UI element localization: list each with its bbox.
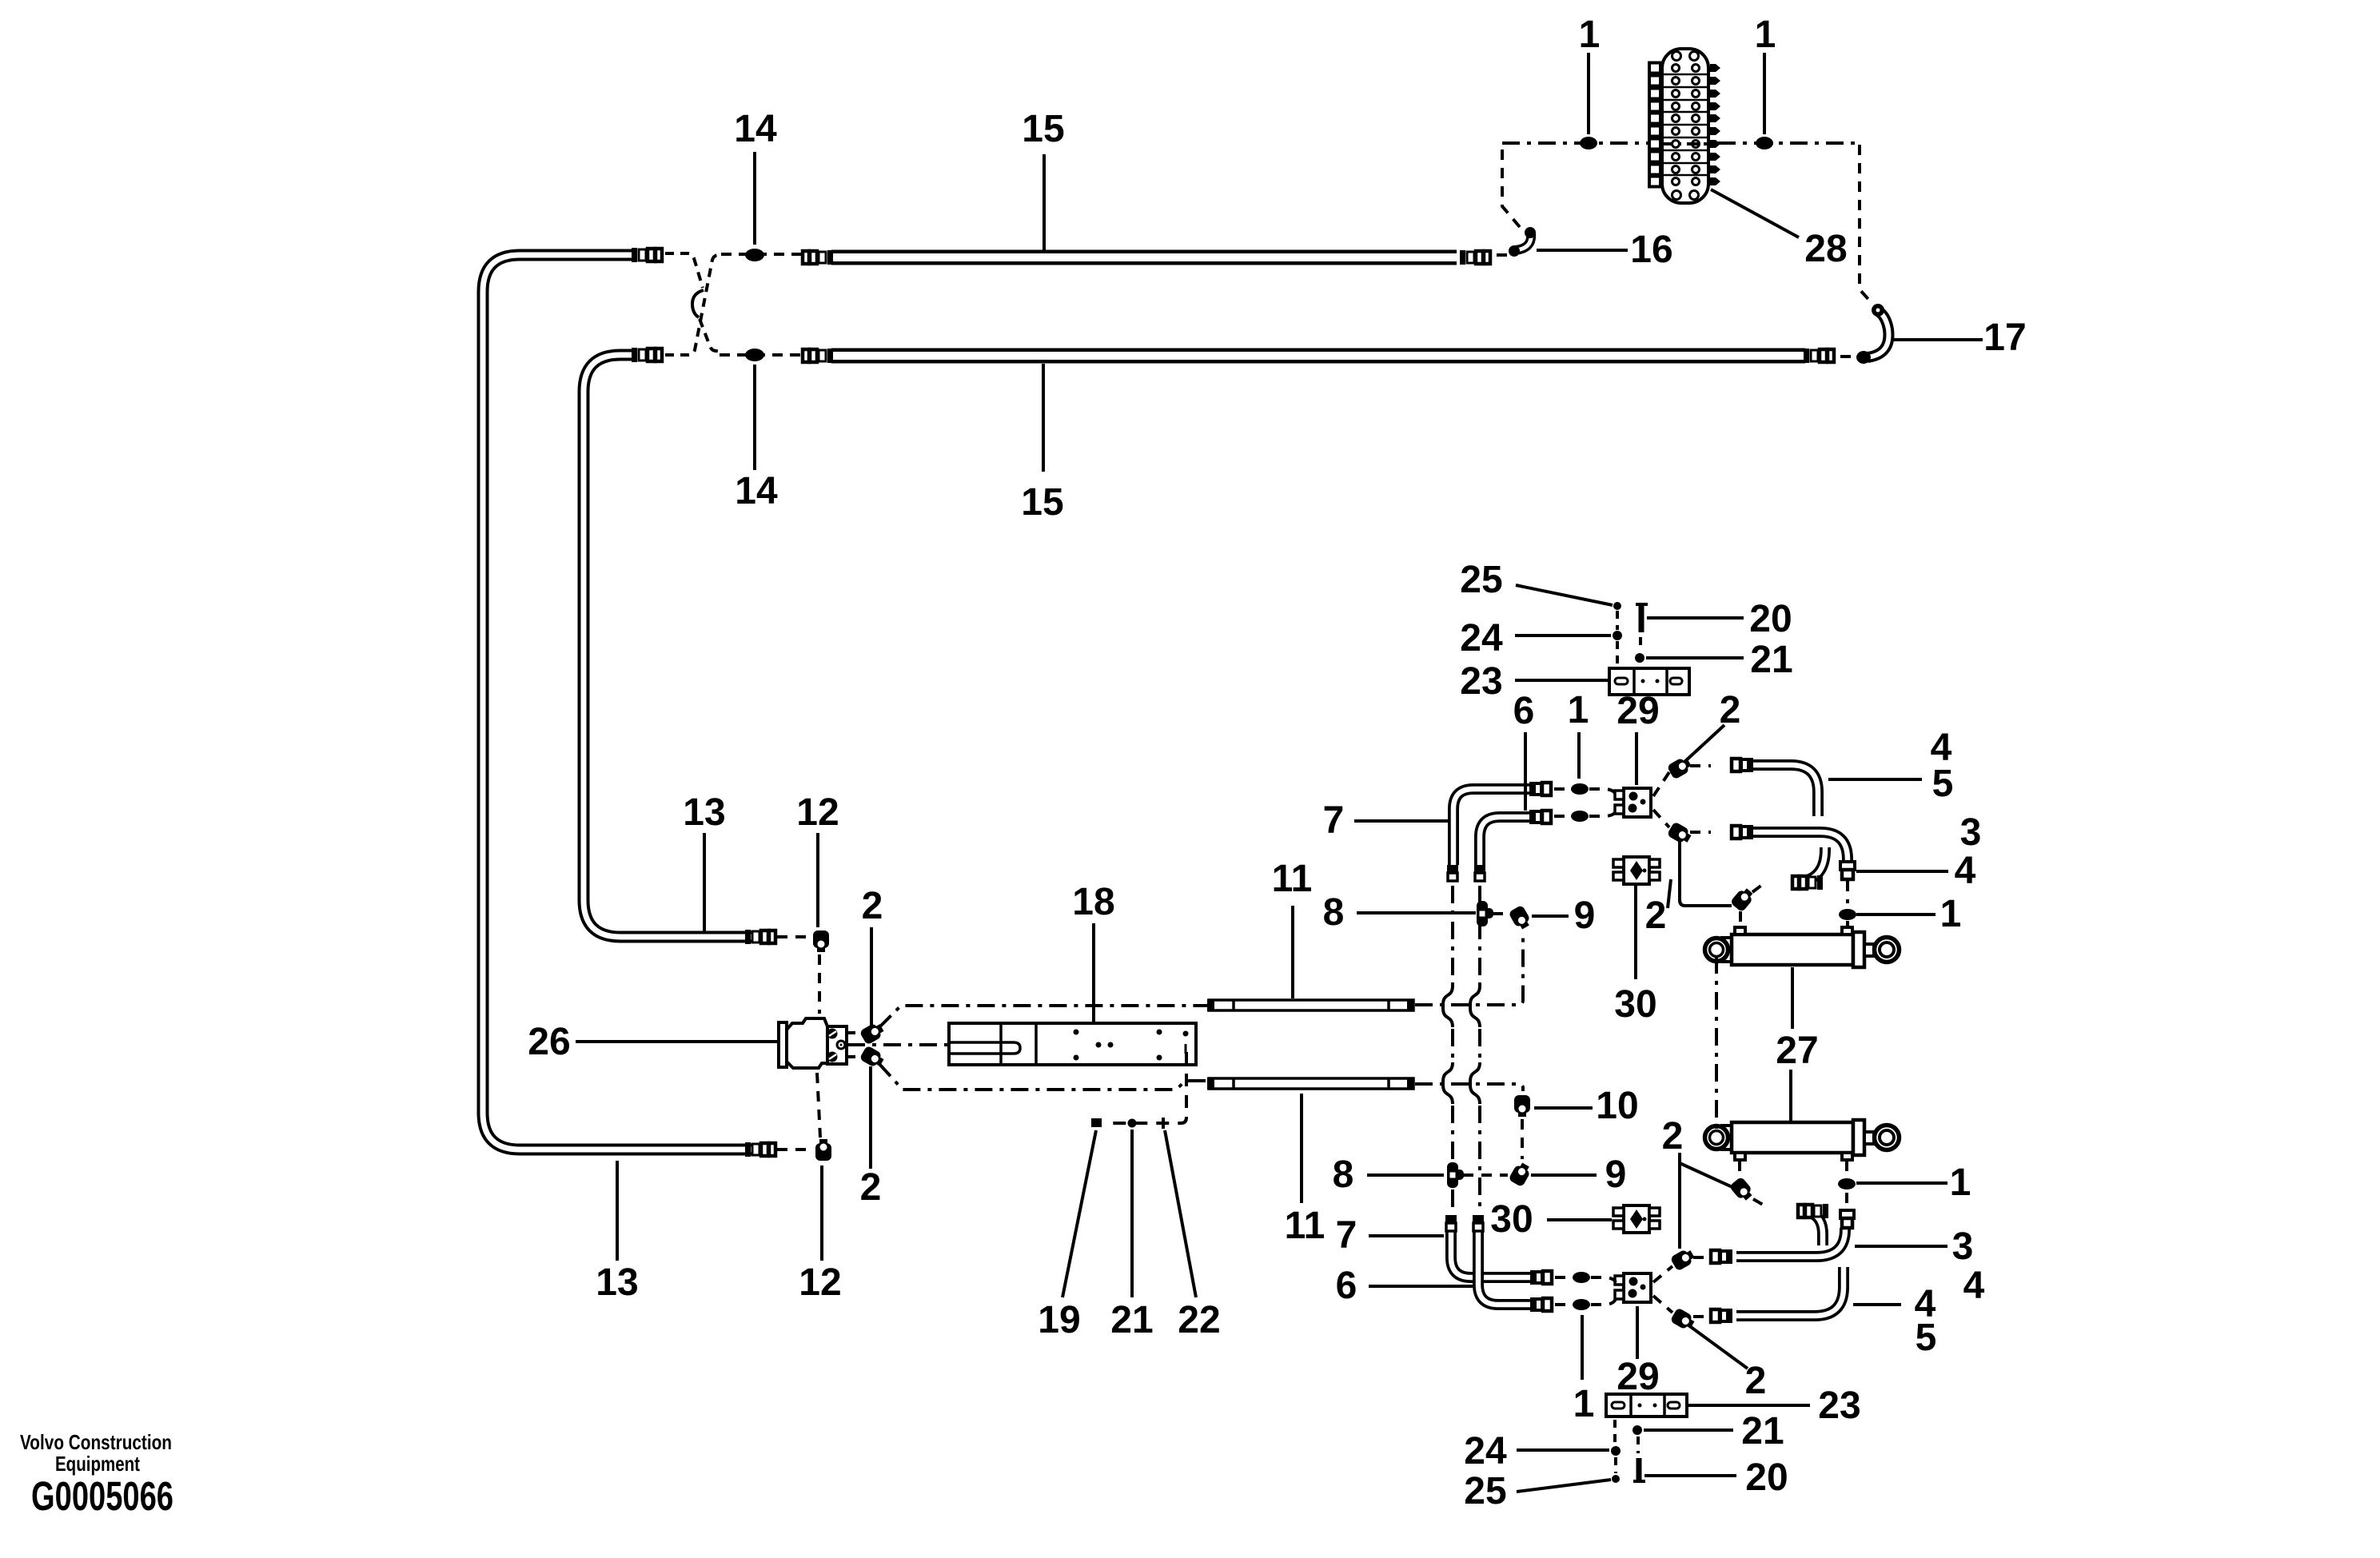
- leader 13 top: [703, 833, 706, 931]
- elbow fitting 9 upper: [1508, 905, 1533, 931]
- svg-text:8: 8: [1333, 1154, 1354, 1196]
- svg-text:24: 24: [1464, 1430, 1507, 1472]
- fitting hose 13 upper right end: [632, 248, 662, 262]
- leader 16: [1537, 249, 1628, 252]
- wire dash valve29l to elbow up: [1653, 1266, 1672, 1282]
- valve block 29 upper: [1615, 788, 1651, 817]
- svg-text:23: 23: [1460, 660, 1502, 703]
- connector 1 at valve29l top: [1573, 1272, 1590, 1283]
- svg-text:12: 12: [796, 791, 839, 834]
- elbow 2 at valve29l upper: [1670, 1247, 1696, 1272]
- svg-text:2: 2: [860, 1166, 882, 1209]
- hose 6 upper: [1480, 817, 1541, 865]
- svg-text:18: 18: [1072, 881, 1114, 923]
- wire dash pin20 to washer21: [1639, 637, 1642, 651]
- wire dash-dot elbow2u to hose4: [1690, 764, 1711, 767]
- svg-text:3: 3: [1960, 811, 1982, 854]
- hose 3 upper right: [1732, 832, 1848, 865]
- wire dash-dot drop line right c: [1478, 1106, 1481, 1213]
- leader 8 upper: [1357, 911, 1476, 914]
- svg-text:1: 1: [1568, 689, 1589, 731]
- wire dash swivel port lower to elbow: [848, 1055, 861, 1058]
- svg-text:5: 5: [1916, 1317, 1937, 1359]
- wire crossing hose swap line A: [665, 253, 703, 288]
- wire dash-dot elbow16 up to rail: [1502, 141, 1520, 227]
- elbow 2 at cylinder 27 upper: [1730, 886, 1756, 913]
- wire dash elbow2 to stub lower: [1753, 1199, 1768, 1208]
- svg-text:21: 21: [1750, 639, 1792, 681]
- svg-text:16: 16: [1630, 229, 1672, 271]
- leader 14 upper: [753, 152, 756, 245]
- pin 20 lower serif: [1633, 1480, 1645, 1483]
- wire dash tee8u to elbow9u: [1493, 912, 1509, 915]
- leader 9 upper: [1532, 914, 1569, 918]
- hose 3 lower right: [1736, 1228, 1845, 1257]
- wire dash-dot drop line left d: [1451, 1189, 1454, 1213]
- swivel joint 26: [779, 1018, 847, 1068]
- fitting hose 13 bottom right end: [745, 1142, 775, 1157]
- leader 1 top-left: [1587, 53, 1590, 134]
- wire dash valve29l to elbow down: [1653, 1296, 1672, 1313]
- leader 28: [1711, 189, 1799, 237]
- end caps elbow 17: [1856, 351, 1871, 364]
- pin 20 upper serif: [1636, 603, 1648, 606]
- wire crossing hook: [692, 290, 704, 317]
- connector 1 right cluster: [1839, 909, 1856, 920]
- tube 11 upper: [1207, 999, 1414, 1011]
- svg-text:20: 20: [1749, 598, 1792, 640]
- elbow 2 swivel lower: [859, 1045, 886, 1070]
- hose 15 lower long: [831, 349, 1805, 364]
- svg-text:15: 15: [1022, 108, 1064, 150]
- elbow 2 swivel upper: [859, 1021, 886, 1046]
- svg-text:25: 25: [1464, 1470, 1506, 1512]
- leader 1 top-right: [1763, 53, 1766, 134]
- leader 23 upper: [1515, 679, 1608, 682]
- wire dash bullet to hose3 fitting: [1845, 1193, 1848, 1207]
- washer 24 upper: [1613, 631, 1622, 640]
- leader 1 lower right: [1856, 1181, 1947, 1185]
- svg-text:3: 3: [1952, 1225, 1974, 1268]
- wire dash-dot drop line left c: [1451, 1106, 1454, 1161]
- wire dash hose15a to elbow 16: [1497, 253, 1508, 257]
- wire elbow2 to cylinder port: [1680, 839, 1732, 906]
- wire dash-dot drop line right b: [1478, 1029, 1481, 1062]
- wire dash plate to washer 24: [1613, 1420, 1617, 1445]
- leader 27 up: [1791, 967, 1794, 1029]
- wire hop of drop line left at upper centerline: [1443, 986, 1453, 1027]
- svg-text:25: 25: [1460, 559, 1502, 601]
- svg-text:2: 2: [1645, 895, 1667, 937]
- leader 19: [1062, 1130, 1096, 1297]
- plug 25 upper: [1613, 602, 1621, 610]
- wire dash-dot top rail: [1502, 141, 1860, 145]
- svg-text:7: 7: [1323, 799, 1345, 842]
- leader 30 upper: [1634, 886, 1637, 979]
- wire dash-dot drop line left a: [1451, 886, 1454, 986]
- valve block 29 lower: [1615, 1273, 1651, 1302]
- svg-text:9: 9: [1574, 895, 1596, 937]
- leader 5: [1828, 778, 1922, 781]
- leader 2 mid right: [1668, 879, 1671, 908]
- leader 25 lower: [1517, 1480, 1611, 1492]
- leader 6 upper: [1524, 732, 1527, 811]
- leader 11 lower: [1300, 1094, 1303, 1203]
- leader 21 lower: [1644, 1428, 1733, 1432]
- svg-text:21: 21: [1741, 1410, 1784, 1452]
- tee fitting 8 upper: [1477, 901, 1493, 926]
- fitting hose 13 lower right end: [632, 348, 662, 362]
- fitting hose 15 lower right end: [1804, 349, 1834, 363]
- wire dash valve29u to elbow2 down: [1653, 810, 1669, 827]
- svg-text:4: 4: [1963, 1265, 1985, 1307]
- leader 24 lower: [1517, 1448, 1609, 1452]
- wire dash hose7u to bullet: [1554, 787, 1567, 791]
- leader 9 lower: [1531, 1173, 1597, 1177]
- elbow fitting 17: [1868, 311, 1888, 357]
- fitting 4 at hose3 end: [1840, 862, 1855, 879]
- leader 12 top: [816, 833, 819, 927]
- wire dash bullet to valve29u bottom: [1589, 811, 1616, 816]
- leader 3 lower: [1855, 1245, 1947, 1248]
- wire dash-dot cylinder pivot axis: [1715, 956, 1718, 1135]
- svg-text:4: 4: [1955, 850, 1976, 892]
- wire hop of drop line right at lower centerline: [1470, 1062, 1480, 1104]
- elbow 12 upper: [813, 930, 829, 952]
- wire dash-dot drop line right a: [1478, 886, 1481, 986]
- leader 2 lower cylinder corner: [1678, 1153, 1681, 1249]
- wire dash tab to elbow2 lower cyl: [1738, 1161, 1741, 1175]
- hose 6 lower: [1478, 1231, 1541, 1305]
- leader 6 lower: [1369, 1285, 1473, 1288]
- hose 7 lower: [1451, 1231, 1541, 1277]
- valve block 30 upper: [1613, 857, 1660, 884]
- svg-text:30: 30: [1490, 1198, 1533, 1241]
- svg-text:G0005066: G0005066: [31, 1473, 173, 1519]
- leader 15 upper: [1042, 154, 1046, 250]
- wire dash-dot elbow to hose4 lower: [1693, 1315, 1709, 1318]
- valve block 30 lower: [1613, 1205, 1660, 1233]
- leader 2 upper cluster: [1684, 725, 1724, 763]
- tee fitting 8 lower: [1447, 1162, 1464, 1188]
- wire dash washer24 to plug25: [1614, 1457, 1617, 1473]
- svg-text:1: 1: [1579, 14, 1601, 56]
- wire dashed box18 drain: [1105, 1052, 1186, 1123]
- wire dash-dot cross to connector 14 lower: [720, 353, 803, 357]
- leader 4 mid right: [1856, 870, 1948, 873]
- svg-text:20: 20: [1745, 1456, 1788, 1499]
- svg-text:11: 11: [1285, 1205, 1326, 1247]
- wire dash-dot drop line left b: [1451, 1029, 1454, 1062]
- leader 24 upper: [1515, 634, 1611, 637]
- svg-text:1: 1: [1950, 1162, 1971, 1204]
- svg-text:Volvo Construction: Volvo Construction: [20, 1430, 172, 1454]
- wire dash hose13bottom to elbow 12 lower: [777, 1148, 809, 1151]
- hose 4 lower right: [1736, 1267, 1844, 1316]
- wire dash elbow10 to elbow9lower: [1521, 1119, 1524, 1159]
- fitting hose 7 upper bottom end: [1447, 865, 1458, 881]
- fitting hose 3 lower left end: [1711, 1249, 1732, 1264]
- leader 12 bottom: [820, 1166, 823, 1261]
- svg-text:6: 6: [1336, 1265, 1357, 1307]
- svg-text:28: 28: [1804, 228, 1847, 270]
- wire dash plug25 to washer24: [1616, 611, 1619, 630]
- connector 1 right of manifold: [1756, 137, 1773, 149]
- wire dash hose13lower to elbow 12 upper: [777, 935, 807, 938]
- leader 1 upper cluster: [1577, 732, 1581, 779]
- hose 13 lower-left: [584, 355, 752, 937]
- svg-text:17: 17: [1983, 317, 2026, 359]
- manifold block 28: [1649, 49, 1720, 203]
- wire dash cyl tab to bullet 1 lower: [1845, 1161, 1848, 1172]
- leader 10: [1534, 1106, 1593, 1110]
- leader 17: [1893, 338, 1983, 341]
- fitting at hose3 lower top: [1840, 1210, 1854, 1228]
- wire dash elbow12u to swivel: [818, 954, 821, 1014]
- elbow 2 at valve29u upper: [1667, 755, 1693, 780]
- plug 19: [1091, 1118, 1102, 1127]
- wire dash bullet to valve29l bottom: [1591, 1299, 1616, 1305]
- leader 29 lower: [1636, 1306, 1639, 1359]
- fitting hose 4 upper left end: [1732, 758, 1753, 772]
- fitting hose 6 upper bottom end: [1474, 865, 1485, 881]
- connector 1 at valve29l bottom: [1573, 1299, 1590, 1310]
- svg-text:21: 21: [1110, 1299, 1153, 1341]
- svg-text:14: 14: [734, 108, 777, 150]
- wire dash-dot cross to connector 14 upper: [721, 253, 803, 256]
- svg-text:9: 9: [1605, 1154, 1627, 1196]
- wire dash-dot elbow2l to hose3: [1690, 831, 1711, 834]
- wire hop of drop line right at upper centerline: [1470, 986, 1480, 1027]
- svg-text:8: 8: [1323, 891, 1345, 934]
- fitting hose 6 lower right end: [1530, 1297, 1552, 1312]
- elbow fitting 10: [1514, 1095, 1530, 1117]
- hose 5 stub at lower cylinder: [1800, 1211, 1823, 1245]
- connector 1 at valve29u bottom: [1571, 811, 1589, 822]
- pin 20 lower: [1636, 1458, 1642, 1481]
- svg-text:29: 29: [1617, 1356, 1659, 1398]
- wire dash washer21 to pin20: [1636, 1436, 1640, 1453]
- plug 25 lower: [1612, 1475, 1620, 1483]
- svg-text:24: 24: [1460, 617, 1503, 659]
- wire dash bullet1 to cylinder tab: [1846, 921, 1849, 927]
- leader 18: [1092, 923, 1095, 1022]
- svg-text:23: 23: [1818, 1385, 1860, 1427]
- wire crossing hose swap line A lower: [700, 319, 721, 352]
- wire dash hose6l to bullet: [1555, 1303, 1568, 1306]
- washer 21 mid: [1128, 1119, 1137, 1128]
- hydraulic cylinder 27 lower: [1705, 1120, 1900, 1160]
- wire dash washer24 to plate: [1616, 641, 1619, 667]
- wire dash-dot centerline upper right: [1415, 932, 1523, 1005]
- svg-text:26: 26: [528, 1021, 570, 1063]
- fitting hose 7 lower top end: [1445, 1215, 1457, 1231]
- elbow 2 at valve29u lower: [1667, 821, 1693, 846]
- svg-text:12: 12: [799, 1261, 841, 1304]
- wire dash-dot elbow to hose3 lower: [1693, 1256, 1709, 1259]
- wire dash hose7l to bullet: [1555, 1276, 1568, 1279]
- hose 5 stub at upper cylinder: [1792, 847, 1825, 883]
- fitting hose 7 upper right end: [1529, 782, 1551, 796]
- svg-text:15: 15: [1021, 481, 1063, 524]
- svg-text:10: 10: [1596, 1085, 1638, 1127]
- elbow 2 at valve29l lower: [1670, 1307, 1696, 1332]
- svg-text:7: 7: [1336, 1214, 1357, 1257]
- leader 21 mid: [1130, 1130, 1134, 1297]
- leader 25 upper: [1516, 585, 1613, 605]
- leader 23 lower: [1688, 1404, 1810, 1407]
- svg-text:11: 11: [1272, 858, 1313, 900]
- leader 30 lower: [1547, 1218, 1612, 1221]
- svg-text:14: 14: [735, 470, 778, 512]
- leader 15 lower: [1042, 364, 1045, 472]
- svg-text:2: 2: [862, 885, 883, 927]
- washer 21 upper: [1635, 653, 1644, 663]
- elbow 2 at cylinder 27 lower: [1729, 1176, 1756, 1203]
- fitting hose 6 lower top end: [1473, 1215, 1484, 1231]
- svg-text:1: 1: [1573, 1383, 1595, 1425]
- svg-text:6: 6: [1513, 690, 1535, 732]
- leader 27 down: [1789, 1070, 1792, 1121]
- leader 29 upper: [1635, 732, 1638, 785]
- wire dash-dot swivel to box: [847, 1043, 948, 1046]
- svg-text:5: 5: [1932, 763, 1954, 805]
- fitting hose 15 upper left end: [803, 250, 833, 265]
- wire dash-dot centerline lower: [879, 1063, 1207, 1090]
- fitting stub hose upper: [1792, 875, 1823, 890]
- leader 2 bottom cluster: [1691, 1327, 1748, 1369]
- leader 2 upper: [870, 927, 873, 1026]
- leader 7 lower: [1369, 1234, 1444, 1237]
- wire dash elbow2cyl to tab: [1739, 911, 1742, 926]
- fitting hose 15 lower left end: [803, 349, 833, 363]
- fitting hose 4 lower left end: [1711, 1309, 1732, 1323]
- svg-text:2: 2: [1662, 1115, 1684, 1158]
- plate 23 lower: [1606, 1394, 1687, 1417]
- leader 1 right: [1856, 913, 1935, 916]
- fitting hose 3 upper left end: [1732, 825, 1753, 839]
- leader 4 lower: [1853, 1303, 1901, 1306]
- leader 22: [1165, 1130, 1196, 1297]
- fitting stub hose lower: [1798, 1204, 1828, 1218]
- wire dash swivel port upper to elbow: [848, 1031, 861, 1034]
- wire dash tee8l to elbow9l: [1463, 1173, 1508, 1177]
- wire dash bullet to valve29u top: [1589, 789, 1616, 795]
- wire dash elbow2cyl to stub hose: [1752, 885, 1762, 892]
- fitting hose 6 upper right end: [1529, 810, 1551, 824]
- elbow fitting 9 lower: [1508, 1161, 1533, 1187]
- tube 11 lower: [1207, 1078, 1414, 1090]
- hose 15 upper long: [831, 250, 1457, 265]
- svg-text:30: 30: [1614, 983, 1656, 1026]
- leader 1 bottom cluster: [1581, 1315, 1584, 1380]
- pin 20 upper: [1639, 604, 1644, 632]
- leader 14 lower: [753, 365, 756, 470]
- cylinder assembly box 18: [949, 1023, 1196, 1065]
- svg-text:13: 13: [683, 791, 725, 834]
- leader 13 bottom: [616, 1161, 619, 1261]
- svg-text:27: 27: [1776, 1030, 1818, 1072]
- washer 21 lower: [1633, 1425, 1642, 1435]
- connector 14 lower: [745, 349, 764, 361]
- svg-text:1: 1: [1755, 14, 1776, 56]
- fitting hose 15 upper right end: [1460, 250, 1490, 265]
- svg-text:13: 13: [596, 1261, 638, 1304]
- svg-text:2: 2: [1745, 1360, 1767, 1402]
- leader 20 lower: [1644, 1474, 1736, 1477]
- wire crossing hose swap line B: [665, 255, 723, 355]
- wire dash-dot centerline upper: [879, 1006, 1207, 1028]
- elbow 12 lower: [815, 1139, 831, 1161]
- connector 14 upper: [745, 249, 764, 261]
- elbow fitting 16: [1515, 233, 1531, 250]
- end caps elbow 16: [1509, 245, 1520, 257]
- hydraulic cylinder 27 upper: [1705, 927, 1900, 967]
- leader 11 upper: [1291, 906, 1294, 998]
- wire dash-dot centerline lower right: [1415, 1084, 1523, 1091]
- connector 1 left of manifold: [1580, 137, 1597, 149]
- hose 13 upper-left long: [483, 255, 751, 1150]
- wire dash valve29u to elbow2 up: [1653, 772, 1669, 796]
- leader 21 upper: [1646, 656, 1744, 659]
- leader 2 lower cylinder diag: [1680, 1163, 1734, 1188]
- washer 24 lower: [1611, 1446, 1621, 1456]
- leader 8 lower: [1367, 1173, 1444, 1177]
- wire dash hose15b to elbow 17: [1840, 355, 1852, 358]
- plate 23 upper: [1609, 668, 1689, 695]
- leader 20 upper: [1647, 616, 1744, 620]
- connector 1 at valve29u top: [1571, 783, 1589, 795]
- wire dash fitting4 to bullet1: [1846, 881, 1849, 903]
- wire dash hose6u to bullet: [1554, 815, 1567, 818]
- hose 7 upper: [1453, 789, 1541, 865]
- svg-text:Equipment: Equipment: [55, 1452, 140, 1476]
- svg-text:22: 22: [1178, 1299, 1220, 1341]
- wire dash-dot right rail down: [1860, 145, 1873, 305]
- wire dash bullet to valve29l top: [1591, 1277, 1616, 1282]
- fitting hose 7 lower right end: [1530, 1270, 1552, 1285]
- wire dash elbow12l to swivel: [817, 1073, 820, 1138]
- leader 2 lower: [869, 1066, 872, 1169]
- fitting hose 13 lower right end2: [745, 930, 775, 944]
- connector 1 lower right: [1838, 1178, 1856, 1189]
- wire hop of drop line left at lower centerline: [1443, 1062, 1453, 1104]
- pin 22: [1162, 1118, 1165, 1129]
- leader 26: [576, 1040, 777, 1043]
- svg-text:19: 19: [1038, 1299, 1080, 1341]
- svg-text:1: 1: [1940, 893, 1962, 935]
- leader 7 upper: [1354, 819, 1448, 823]
- hose 4 upper right: [1732, 765, 1818, 816]
